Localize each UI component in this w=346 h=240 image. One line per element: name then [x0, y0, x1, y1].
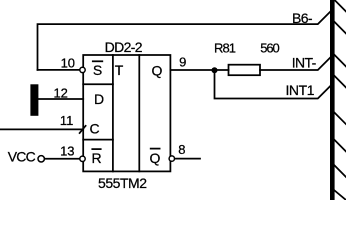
- svg-text:9: 9: [179, 55, 186, 70]
- svg-text:Q: Q: [151, 63, 162, 79]
- svg-text:INT-: INT-: [292, 55, 317, 71]
- svg-text:560: 560: [260, 40, 280, 55]
- svg-text:S: S: [93, 62, 102, 78]
- svg-text:8: 8: [178, 142, 185, 157]
- svg-text:R: R: [91, 150, 101, 166]
- svg-text:D: D: [94, 91, 104, 107]
- svg-text:555TM2: 555TM2: [98, 175, 147, 191]
- svg-text:INT1: INT1: [286, 82, 315, 98]
- svg-text:T: T: [115, 62, 124, 78]
- svg-text:DD2-2: DD2-2: [105, 39, 143, 55]
- svg-text:B6-: B6-: [292, 10, 313, 26]
- svg-text:VCC: VCC: [8, 148, 36, 164]
- svg-text:10: 10: [61, 56, 75, 71]
- svg-text:R81: R81: [214, 40, 236, 55]
- svg-text:11: 11: [60, 113, 74, 128]
- svg-text:12: 12: [53, 85, 67, 100]
- svg-text:13: 13: [60, 143, 74, 158]
- svg-text:Q: Q: [150, 150, 161, 166]
- svg-text:C: C: [89, 121, 99, 137]
